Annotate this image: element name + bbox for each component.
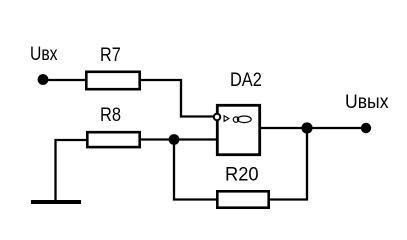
node B output junction — [301, 122, 312, 133]
wire node A down to R20 — [174, 140, 216, 200]
svg-text:DA2: DA2 — [230, 70, 262, 91]
wire R7 to inverting input of DA2 — [140, 80, 213, 117]
resistor R20 — [217, 165, 268, 208]
svg-text:Uвых: Uвых — [345, 92, 389, 113]
node Uвых output terminal — [361, 123, 371, 133]
node A junction (inverting summing node) — [169, 134, 180, 145]
node Uвх input terminal — [38, 74, 49, 85]
resistor R8 — [87, 105, 139, 147]
wire R8 left to ground — [56, 140, 87, 201]
svg-text:Uвх: Uвх — [30, 44, 58, 65]
wire R8 right to DA2 lower input — [140, 138, 217, 140]
wire input terminal to R7 — [43, 79, 86, 81]
svg-text:R7: R7 — [100, 45, 121, 66]
wire DA2 output to output terminal — [260, 127, 366, 129]
svg-text:R20: R20 — [225, 165, 259, 186]
svg-text:R8: R8 — [100, 105, 121, 126]
resistor R7 — [86, 45, 139, 89]
op-amp DA2 — [214, 70, 262, 155]
ground — [31, 200, 81, 204]
wire R20 right up to output node — [269, 128, 307, 200]
